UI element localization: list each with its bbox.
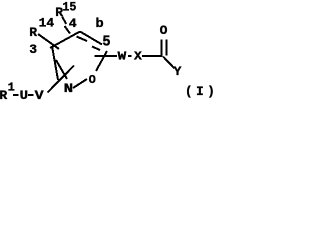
svg-text:3: 3 [29,42,37,57]
svg-text:O: O [160,23,168,38]
bond dash U-V [28,94,33,96]
wire ring bond C4-C5 [80,32,102,45]
svg-text:b: b [96,16,104,31]
svg-text:4: 4 [69,16,77,31]
wire ring bond N-O [73,79,87,88]
svg-text:(I): (I) [185,85,216,99]
svg-text:U: U [20,88,28,103]
svg-text:X: X [134,50,143,64]
bond R15 to C4 [62,17,66,25]
svg-text:5: 5 [102,34,110,50]
svg-text:R: R [0,88,7,103]
wire bond X to carbonyl C [142,55,162,57]
wire ring bond O-C5 [96,51,107,71]
svg-text:N: N [64,81,74,96]
svg-text:W: W [118,50,128,64]
carbonyl C=O double bond line 1 [161,40,163,58]
svg-text:14: 14 [39,16,55,31]
wire ring bond C3=N outer line [52,46,58,80]
wire bond C to Y [163,57,175,69]
svg-text:1: 1 [8,81,15,95]
carbonyl C=O double bond line 2 [166,40,168,56]
wire bond C5 to W [95,55,118,57]
wire bond V to ring [48,66,75,93]
svg-text:V: V [35,88,44,103]
dashed double-bond mark b, dash 1 [77,37,88,42]
svg-text:15: 15 [62,0,76,15]
svg-text:Y: Y [174,64,182,79]
svg-text:R: R [29,25,37,40]
bond dash R1-U [13,94,18,96]
wire ring bond C3=N inner line [56,60,67,79]
dashed double-bond mark b, dash 2 [92,47,100,51]
wire ring bond C3-C4 [50,32,80,49]
bond W-X [128,55,132,57]
svg-text:O: O [89,73,96,87]
bond R14 to C3 [38,34,59,49]
